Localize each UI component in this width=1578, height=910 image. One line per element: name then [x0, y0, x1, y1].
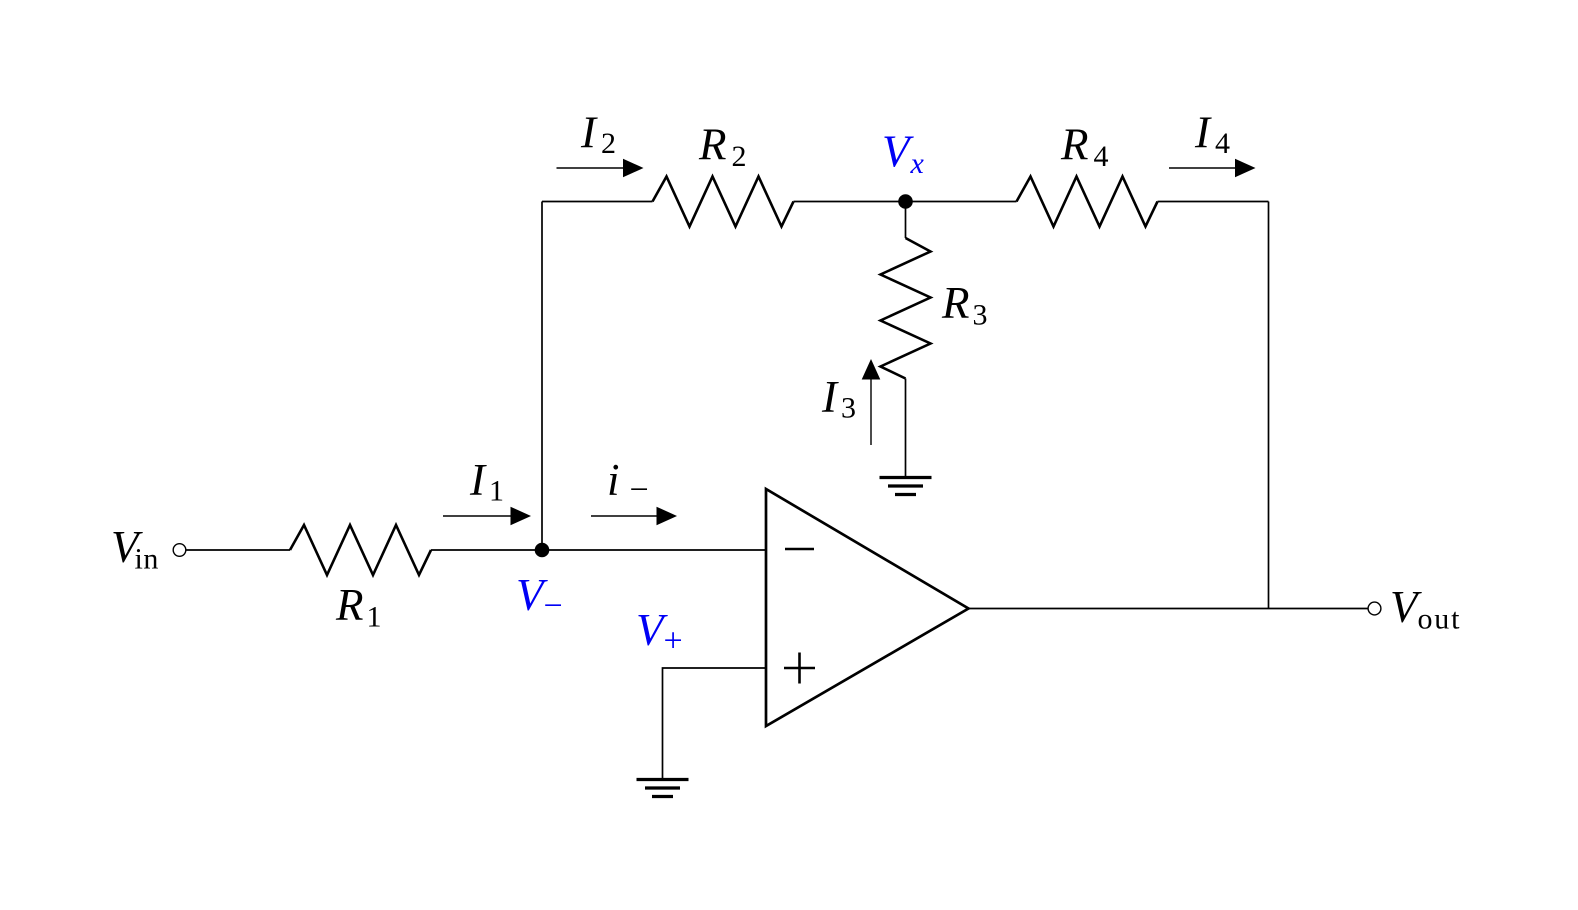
op-amp non-inverting input marker (+)	[784, 653, 815, 684]
wire op-amp output to Vout	[969, 608, 1368, 610]
current arrow I1	[443, 507, 531, 526]
terminal Vin	[173, 544, 186, 557]
wire Vin to R1	[186, 549, 290, 551]
wire R2 to R4 through node Vx	[794, 201, 1017, 203]
wire non-inverting input to ground	[663, 668, 767, 779]
resistor R2	[653, 177, 794, 227]
op-amp inverting input marker (-)	[785, 548, 814, 551]
ground below R3	[880, 478, 932, 495]
terminal Vout	[1368, 602, 1381, 615]
wire R3 to ground	[905, 379, 907, 478]
current arrow i-	[591, 507, 677, 526]
ground below non-inverting input	[637, 780, 689, 797]
wire R4 to feedback corner	[1158, 201, 1269, 203]
resistor R4	[1017, 177, 1158, 227]
op-amp U1	[766, 489, 969, 726]
current arrow I4	[1169, 159, 1256, 178]
wire node V- up to feedback branch	[541, 202, 543, 551]
node Vx	[898, 194, 913, 209]
wire R1 to op-amp inverting input through node V-	[431, 549, 766, 551]
current arrow I3	[862, 359, 881, 445]
current arrow I2	[557, 159, 644, 178]
resistor R3	[881, 238, 931, 379]
node V-	[535, 543, 550, 558]
resistor R1	[290, 525, 431, 575]
wire node Vx down to R3	[905, 202, 907, 239]
wire top-left corner to R2	[542, 201, 653, 203]
feedback wire down to output line	[1268, 202, 1270, 609]
